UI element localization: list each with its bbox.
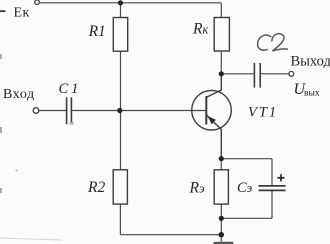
svg-text:R2: R2	[87, 179, 105, 196]
svg-text:Сэ: Сэ	[237, 180, 253, 196]
node dot emitter	[219, 156, 224, 161]
svg-text:С1: С1	[59, 81, 82, 97]
wire Rk bottom to collector node	[220, 51, 222, 74]
svg-text:Вход: Вход	[3, 87, 35, 102]
plus sign	[277, 174, 284, 181]
resistor R1	[113, 18, 127, 52]
wire emitter node horizontal	[221, 158, 272, 160]
wire C2 to output	[260, 73, 289, 75]
wire Ce top lead	[271, 159, 273, 186]
wire Re bottom to node	[220, 204, 222, 218]
wire input to C1	[39, 110, 66, 112]
terminal input	[33, 108, 39, 114]
transistor VT1	[192, 74, 232, 159]
node dot top rail	[118, 0, 123, 5]
node dot base	[117, 108, 122, 113]
wire Ce bottom lead	[271, 191, 273, 218]
scan artifacts	[0, 54, 74, 193]
ground	[214, 242, 234, 244]
svg-text:Rк: Rк	[192, 21, 208, 38]
svg-text:Rэ: Rэ	[189, 179, 205, 196]
wire Ce bottom to node	[221, 217, 272, 219]
resistor R2	[113, 170, 127, 204]
wire top rail	[39, 2, 221, 4]
svg-text:Выход: Выход	[291, 53, 330, 69]
wire bottom rail	[120, 234, 221, 236]
capacitor C1	[67, 97, 72, 124]
resistor Rk	[214, 18, 229, 52]
wire left branch R2 bottom to rail	[119, 204, 121, 235]
wire left branch R1 to C1 node	[120, 51, 122, 110]
wire node to ground	[220, 218, 222, 241]
svg-text:VT1: VT1	[248, 105, 278, 121]
capacitor Ce (electrolytic)	[259, 186, 286, 191]
node dot Re-Ce bottom	[219, 216, 224, 221]
wire left branch top	[120, 3, 122, 18]
terminal Ek	[35, 0, 40, 5]
capacitor C2	[254, 63, 260, 88]
wire C1 to base	[72, 110, 207, 112]
terminal output	[289, 71, 294, 76]
wire emitter node to Re	[220, 159, 222, 170]
wire left branch node to R2	[120, 111, 122, 170]
wire collector node to C2	[221, 73, 254, 75]
node dot bottom rail	[219, 232, 224, 237]
svg-text:вых: вых	[304, 89, 320, 99]
resistor Re	[214, 170, 228, 204]
label -Ek	[0, 10, 6, 12]
svg-text:R1: R1	[88, 23, 106, 40]
svg-text:Ек: Ек	[14, 5, 30, 20]
label C2 handwritten	[258, 34, 288, 51]
node dot collector	[219, 71, 224, 76]
wire right branch top corner	[220, 3, 222, 18]
